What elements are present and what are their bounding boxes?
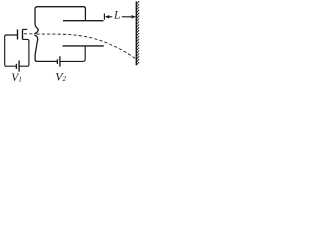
dimension arrow left (points at bar) [109, 16, 113, 18]
anode plate A [22, 29, 24, 39]
battery V2 long plate [59, 56, 61, 66]
screen [135, 2, 137, 66]
battery V2 short plate [56, 59, 58, 64]
battery V1 long plate [18, 60, 20, 71]
svg-text:L: L [113, 10, 120, 22]
wire: V2 to bottom plate lead [60, 46, 85, 62]
svg-text:V2: V2 [55, 70, 66, 84]
electron beam (dashed trajectory) [24, 33, 34, 35]
screen hatching [136, 1, 139, 65]
electron beam curve through plates to screen [36, 34, 135, 59]
dimension arrow right (points at screen) [122, 16, 131, 18]
battery V1 short plate [15, 64, 17, 69]
wire: V1 bottom right and right side up to anode [20, 39, 29, 66]
gun wall lower horn down to V2 [34, 35, 57, 62]
bottom deflection plate [63, 45, 104, 47]
wire: gun wall with aperture horn, up, top wire across, lead down to top plate [34, 7, 85, 34]
top deflection plate [63, 20, 104, 22]
dimension terminator bar [103, 13, 105, 19]
svg-text:V1: V1 [11, 72, 22, 84]
anode top tick [23, 28, 28, 30]
wire: V1 loop left side and feed to cathode [5, 35, 18, 66]
cathode plate K [17, 29, 19, 39]
